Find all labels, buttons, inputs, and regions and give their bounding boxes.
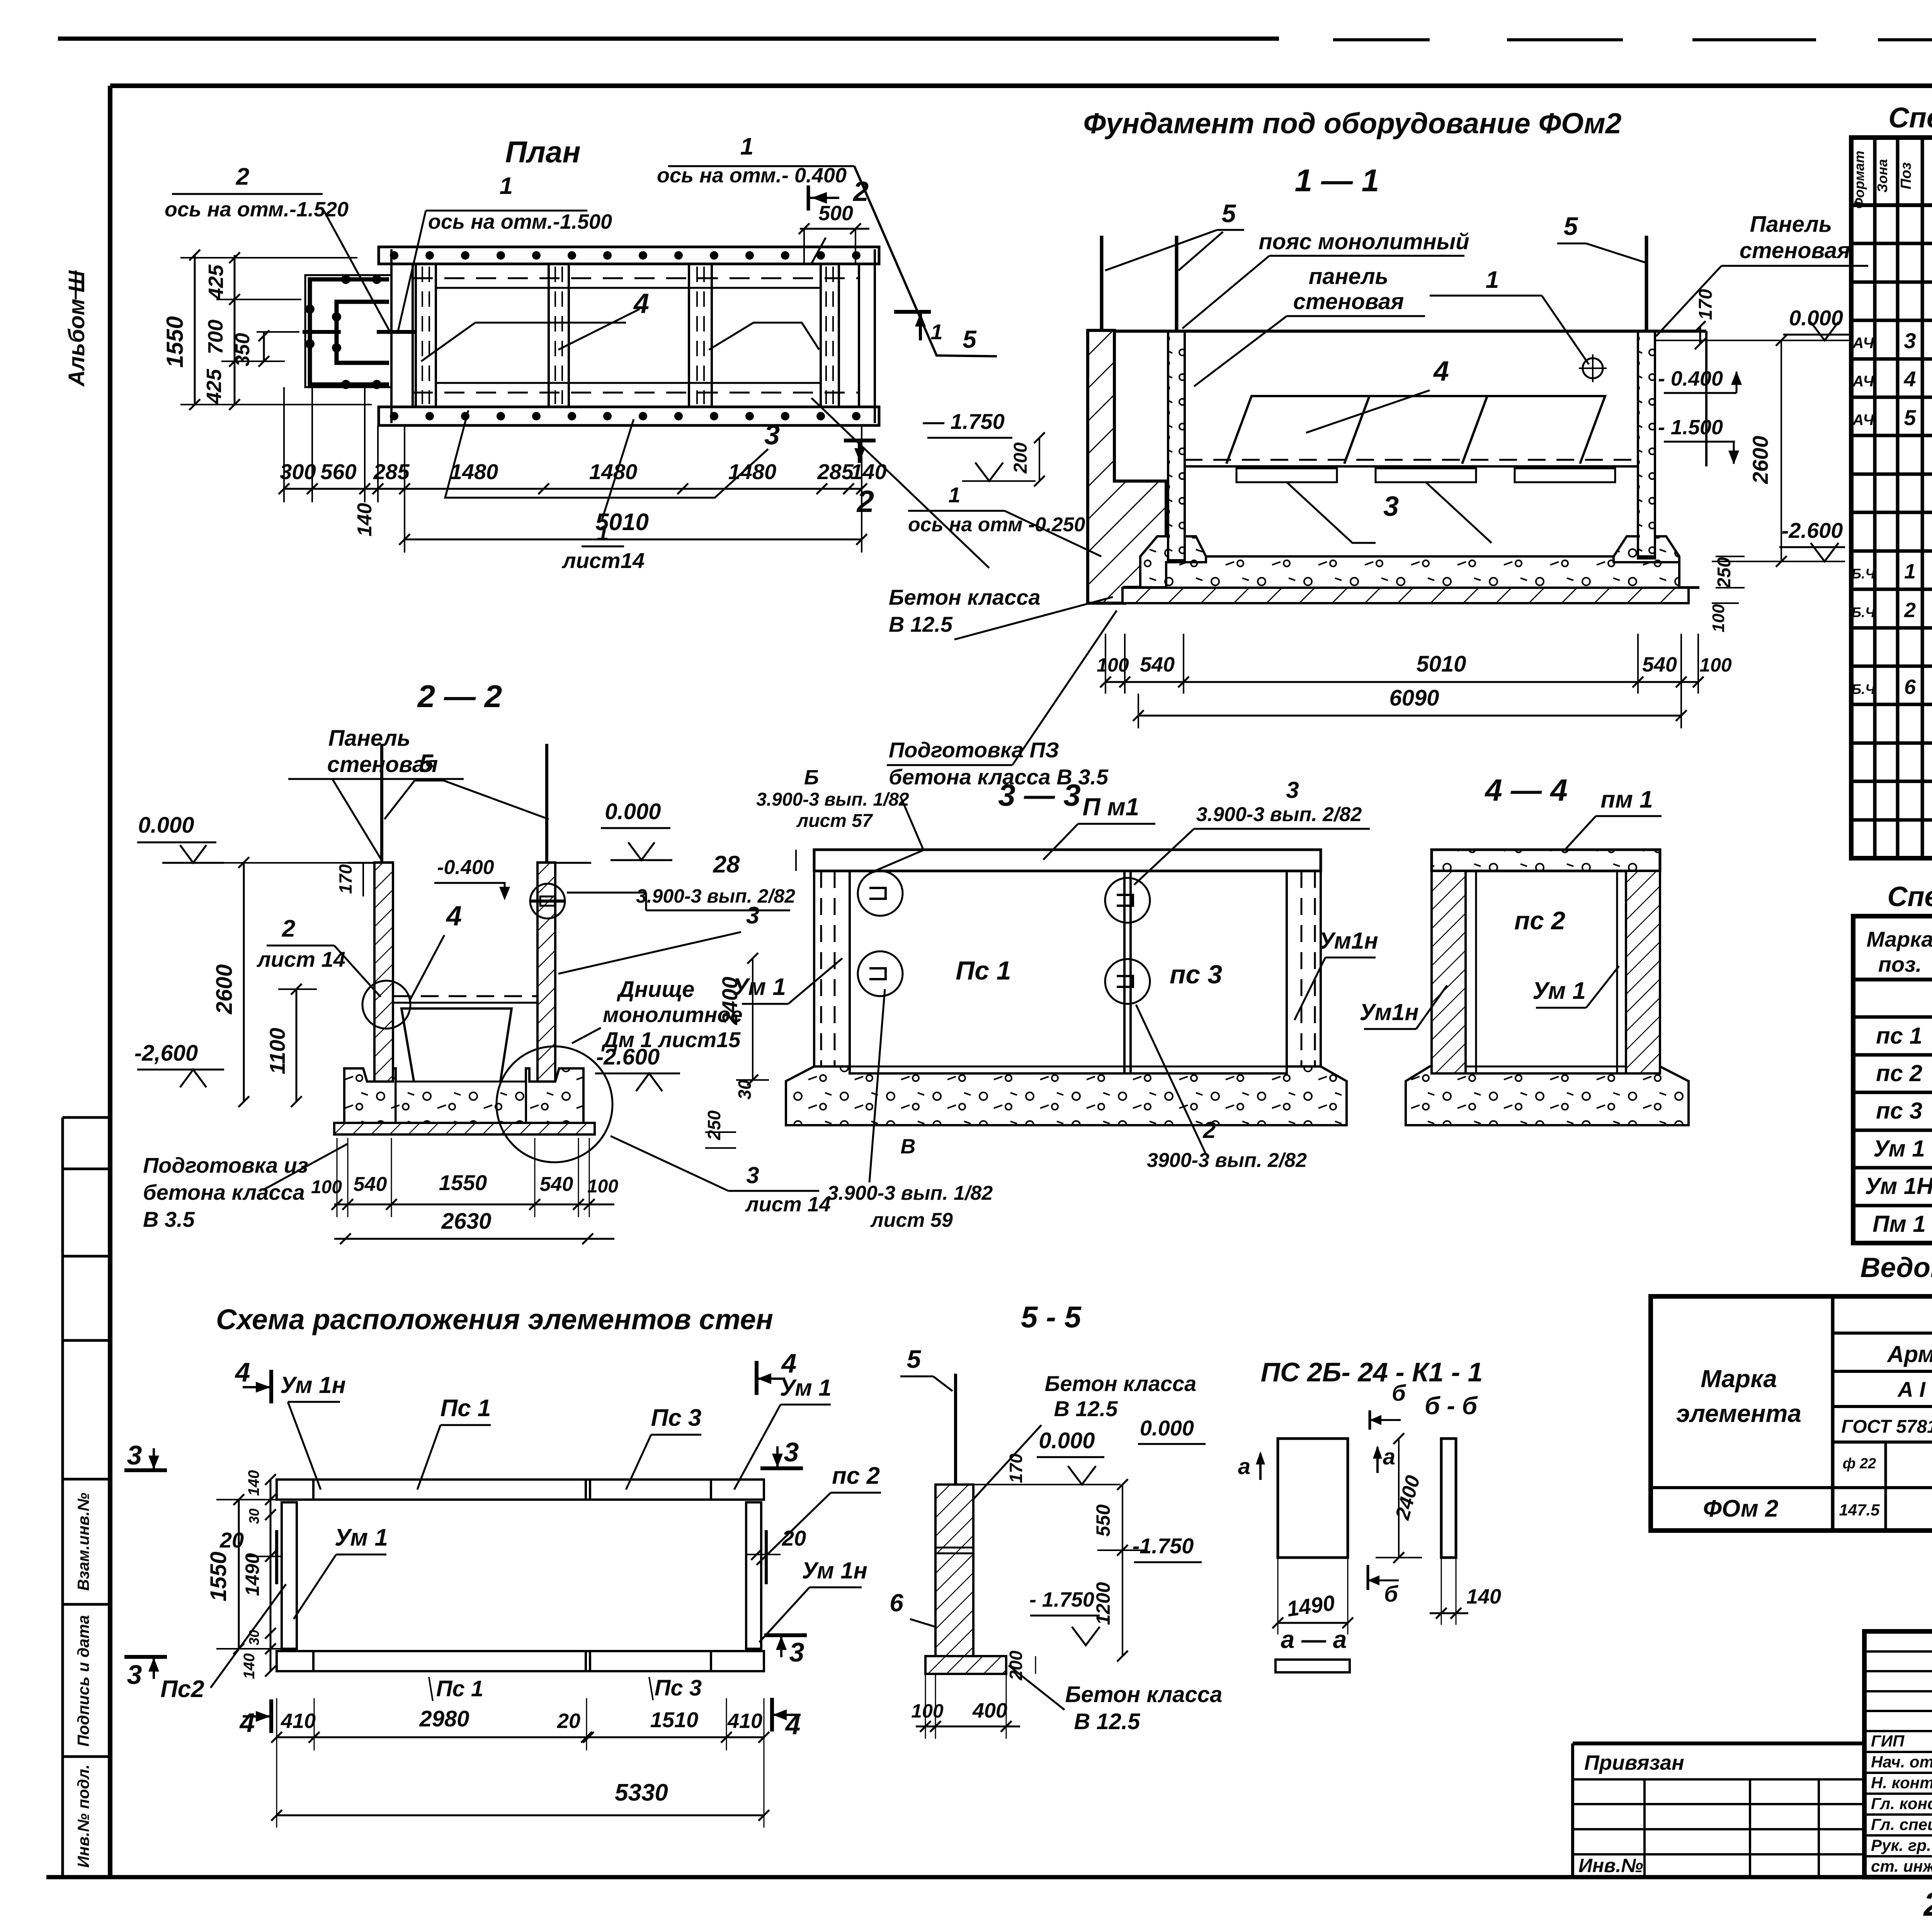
svg-text:Схема расположения элементов: Схема расположения элементов стен [216, 1303, 773, 1335]
svg-text:3.900-3 вып. 2/82: 3.900-3 вып. 2/82 [1196, 803, 1362, 826]
svg-text:1: 1 [930, 320, 942, 344]
svg-text:4: 4 [446, 901, 462, 932]
svg-text:лист 14: лист 14 [256, 947, 345, 971]
svg-text:Панель: Панель [328, 726, 411, 751]
svg-text:П м1: П м1 [1083, 793, 1139, 821]
svg-text:250: 250 [1714, 557, 1735, 588]
svg-text:140: 140 [241, 1653, 258, 1679]
svg-text:20: 20 [557, 1709, 580, 1733]
svg-text:3: 3 [1904, 328, 1916, 353]
svg-text:Пс2: Пс2 [160, 1676, 204, 1702]
svg-text:ось на отм.-1.520: ось на отм.-1.520 [165, 198, 349, 221]
svg-text:1550: 1550 [206, 1551, 231, 1601]
svg-text:550: 550 [1092, 1504, 1114, 1537]
svg-text:425: 425 [204, 264, 228, 300]
svg-text:б: б [1384, 1582, 1399, 1607]
svg-text:Н. контр.: Н. контр. [1871, 1774, 1932, 1792]
svg-text:Подготовка из: Подготовка из [143, 1153, 308, 1177]
svg-text:400: 400 [972, 1699, 1007, 1722]
svg-text:Марка: Марка [1867, 927, 1932, 951]
svg-text:ГОСТ 5781- 82 *: ГОСТ 5781- 82 * [1841, 1417, 1932, 1437]
svg-text:170: 170 [1006, 1453, 1026, 1483]
svg-text:3.900-3 вып. 1/82: 3.900-3 вып. 1/82 [827, 1182, 993, 1204]
svg-text:2: 2 [282, 915, 295, 942]
svg-text:лист 59: лист 59 [870, 1209, 953, 1231]
svg-text:3 — 3: 3 — 3 [998, 778, 1080, 812]
svg-text:- 0.400: - 0.400 [1658, 367, 1723, 390]
svg-text:3.900-3 вып. 1/82: 3.900-3 вып. 1/82 [756, 789, 909, 810]
svg-text:Пс 3: Пс 3 [651, 1405, 702, 1431]
svg-text:Пс 1: Пс 1 [440, 1395, 491, 1422]
svg-text:4: 4 [239, 1708, 255, 1738]
svg-text:Ум 1: Ум 1 [733, 974, 786, 1000]
svg-text:Рук. гр.: Рук. гр. [1871, 1836, 1931, 1854]
svg-text:560: 560 [320, 459, 356, 484]
svg-text:5330: 5330 [615, 1779, 668, 1806]
svg-text:1200: 1200 [1092, 1582, 1114, 1625]
svg-text:3.900-3 вып. 2/82: 3.900-3 вып. 2/82 [636, 885, 795, 907]
svg-text:Бетон класса: Бетон класса [889, 585, 1041, 609]
svg-text:4: 4 [1903, 367, 1916, 391]
svg-text:Ум1н: Ум1н [1359, 999, 1418, 1025]
svg-text:2600: 2600 [212, 964, 237, 1014]
svg-text:лист14: лист14 [561, 548, 645, 573]
svg-text:лист 57: лист 57 [796, 811, 873, 831]
svg-text:ПС 2Б- 24 - К1 - 1: ПС 2Б- 24 - К1 - 1 [1261, 1357, 1483, 1387]
svg-text:1: 1 [1486, 267, 1499, 293]
svg-text:В 12.5: В 12.5 [889, 612, 953, 636]
svg-text:30: 30 [246, 1509, 262, 1524]
svg-text:Б.Ч: Б.Ч [1852, 681, 1876, 697]
svg-text:410: 410 [281, 1709, 316, 1733]
svg-text:Б: Б [804, 766, 819, 789]
svg-text:100: 100 [587, 1176, 618, 1197]
svg-text:б: б [1392, 1381, 1406, 1406]
svg-text:1490: 1490 [241, 1553, 263, 1596]
svg-text:4: 4 [633, 288, 649, 319]
svg-text:6090: 6090 [1389, 685, 1439, 711]
svg-text:Инв.№: Инв.№ [1578, 1855, 1643, 1876]
svg-text:поз.: поз. [1878, 952, 1922, 976]
svg-text:Поз: Поз [1898, 162, 1914, 189]
svg-text:Зона: Зона [1874, 159, 1890, 193]
svg-text:пояс монолитный: пояс монолитный [1259, 229, 1469, 254]
svg-text:Гл. конс.: Гл. конс. [1871, 1794, 1932, 1813]
svg-text:3: 3 [1286, 777, 1299, 803]
svg-text:1480: 1480 [589, 459, 638, 484]
svg-text:пс 2: пс 2 [1876, 1060, 1922, 1086]
svg-text:1: 1 [1904, 560, 1916, 583]
svg-text:1550: 1550 [439, 1170, 487, 1195]
svg-text:ФОм 2: ФОм 2 [1703, 1495, 1779, 1522]
svg-text:ось на отм -0.250: ось на отм -0.250 [908, 514, 1085, 536]
svg-text:5010: 5010 [595, 509, 649, 536]
svg-text:425: 425 [202, 369, 226, 404]
svg-text:540: 540 [1140, 653, 1175, 676]
svg-text:Ум 1Н: Ум 1Н [1865, 1173, 1932, 1199]
svg-text:бетона класса: бетона класса [143, 1180, 305, 1204]
svg-text:300: 300 [280, 459, 316, 484]
svg-text:Бетон класса: Бетон класса [1065, 1682, 1223, 1707]
svg-text:1480: 1480 [728, 459, 777, 484]
svg-text:-0.400: -0.400 [437, 856, 494, 879]
svg-text:140: 140 [245, 1470, 262, 1496]
svg-text:2: 2 [1202, 1117, 1216, 1143]
svg-text:1: 1 [500, 173, 513, 199]
svg-text:4 — 4: 4 — 4 [1484, 773, 1567, 807]
svg-text:Б.Ч: Б.Ч [1852, 566, 1876, 582]
svg-text:3900-3 вып. 2/82: 3900-3 вып. 2/82 [1147, 1149, 1307, 1172]
svg-text:Бетон класса: Бетон класса [1045, 1371, 1197, 1396]
svg-text:410: 410 [727, 1709, 762, 1733]
svg-text:3: 3 [746, 1162, 759, 1188]
svg-text:2980: 2980 [419, 1706, 469, 1731]
svg-text:Ум 1: Ум 1 [335, 1524, 388, 1551]
svg-text:100: 100 [1709, 604, 1728, 633]
svg-text:1: 1 [948, 483, 960, 507]
svg-text:-1.750: -1.750 [1133, 1534, 1194, 1558]
svg-text:а: а [1383, 1444, 1395, 1469]
svg-text:пм 1: пм 1 [1600, 786, 1653, 813]
svg-text:Ум1н: Ум1н [1319, 928, 1378, 954]
svg-text:Ум 1: Ум 1 [1532, 978, 1586, 1004]
svg-text:пс 2: пс 2 [832, 1463, 880, 1489]
svg-text:3: 3 [1383, 491, 1399, 522]
svg-text:5: 5 [963, 325, 977, 353]
svg-text:Арматура класса: Арматура класса [1886, 1341, 1932, 1367]
svg-text:Гл. спец.: Гл. спец. [1871, 1815, 1932, 1833]
svg-text:0.000: 0.000 [138, 813, 194, 838]
svg-text:5: 5 [419, 749, 434, 777]
svg-text:140: 140 [1466, 1585, 1501, 1608]
svg-text:Нач. отд: Нач. отд [1871, 1753, 1932, 1771]
svg-text:20: 20 [782, 1526, 806, 1550]
svg-text:5: 5 [907, 1345, 922, 1373]
svg-text:АЧ: АЧ [1852, 373, 1874, 390]
svg-text:147.5: 147.5 [1839, 1501, 1880, 1519]
svg-text:4: 4 [781, 1348, 797, 1378]
svg-text:В 12.5: В 12.5 [1054, 1396, 1118, 1421]
svg-text:2 — 2: 2 — 2 [417, 679, 502, 714]
svg-text:-2.600: -2.600 [1782, 518, 1843, 543]
svg-text:30: 30 [735, 1080, 755, 1100]
svg-text:- 1.500: - 1.500 [1658, 416, 1723, 439]
svg-text:170: 170 [1696, 289, 1716, 320]
svg-text:Спецификация фундамента по: Спецификация фундамента под оборудование… [1888, 102, 1932, 134]
svg-text:5: 5 [1904, 405, 1916, 430]
svg-text:Спецификация к схеме располо: Спецификация к схеме расположения элемен… [1887, 881, 1932, 912]
svg-text:Ум 1н: Ум 1н [802, 1558, 867, 1583]
svg-text:Ведомость расхода стали на: Ведомость расхода стали на элемент, кг [1860, 1252, 1932, 1283]
svg-text:1550: 1550 [162, 316, 188, 367]
svg-text:элемента: элемента [1676, 1400, 1801, 1427]
svg-text:Пм 1: Пм 1 [1872, 1211, 1926, 1237]
svg-text:стеновая: стеновая [1293, 289, 1404, 314]
svg-text:1100: 1100 [265, 1028, 289, 1074]
svg-text:4: 4 [1433, 356, 1449, 387]
svg-text:3: 3 [789, 1637, 804, 1667]
svg-text:140: 140 [850, 459, 886, 484]
svg-text:а — а: а — а [1281, 1626, 1347, 1653]
svg-text:Привязан: Привязан [1584, 1751, 1684, 1774]
svg-text:Ум 1: Ум 1 [1873, 1136, 1925, 1162]
svg-text:2630: 2630 [441, 1209, 491, 1234]
svg-text:0.000: 0.000 [605, 799, 661, 824]
svg-text:1 — 1: 1 — 1 [1295, 163, 1379, 198]
svg-text:ось на отм.-1.500: ось на отм.-1.500 [428, 210, 612, 233]
svg-text:100: 100 [1699, 654, 1732, 676]
svg-text:Взам.инв.№: Взам.инв.№ [74, 1493, 92, 1591]
svg-text:Дм 1 лист15: Дм 1 лист15 [601, 1027, 741, 1052]
svg-text:б - б: б - б [1425, 1392, 1478, 1420]
svg-text:1510: 1510 [650, 1708, 699, 1732]
svg-text:В 12.5: В 12.5 [1074, 1709, 1141, 1734]
svg-text:пс 3: пс 3 [1170, 960, 1222, 989]
svg-text:Марка: Марка [1701, 1365, 1777, 1393]
svg-text:— 1.750: — 1.750 [922, 409, 1005, 434]
svg-text:3: 3 [764, 420, 780, 451]
svg-text:2: 2 [236, 163, 249, 190]
svg-text:А I: А I [1897, 1377, 1926, 1401]
svg-text:Инв.№ подл.: Инв.№ подл. [74, 1764, 92, 1867]
svg-text:Панель: Панель [1750, 212, 1832, 237]
svg-text:540: 540 [540, 1173, 573, 1196]
svg-text:Фундамент под оборудование: Фундамент под оборудование ФОм2 [1083, 107, 1622, 139]
svg-text:Подпись и дата: Подпись и дата [74, 1615, 92, 1747]
svg-text:0.000: 0.000 [1140, 1416, 1194, 1440]
svg-text:0.000: 0.000 [1039, 1428, 1095, 1453]
svg-text:Пс 3: Пс 3 [655, 1675, 702, 1701]
svg-text:В: В [901, 1135, 916, 1158]
svg-text:100: 100 [911, 1700, 944, 1722]
svg-text:5010: 5010 [1416, 651, 1466, 677]
svg-text:170: 170 [335, 864, 355, 894]
svg-text:22532-01: 22532-01 [1923, 1886, 1932, 1923]
svg-text:пс 2: пс 2 [1514, 906, 1565, 935]
svg-text:540: 540 [354, 1173, 387, 1196]
svg-text:-2,600: -2,600 [134, 1041, 198, 1066]
svg-text:285: 285 [817, 459, 854, 484]
svg-text:140: 140 [354, 503, 376, 537]
svg-text:3: 3 [784, 1437, 799, 1467]
svg-text:5: 5 [1222, 199, 1236, 228]
svg-text:4: 4 [235, 1357, 250, 1387]
svg-text:Формат: Формат [1851, 151, 1867, 209]
svg-text:ст. инж.: ст. инж. [1871, 1857, 1932, 1875]
svg-text:1480: 1480 [450, 459, 498, 484]
svg-text:Ум 1: Ум 1 [780, 1375, 832, 1401]
svg-text:3: 3 [746, 902, 759, 929]
svg-text:3: 3 [127, 1660, 142, 1690]
svg-text:2: 2 [1904, 599, 1916, 622]
svg-text:панель: панель [1309, 264, 1388, 289]
svg-text:Подготовка ПЗ: Подготовка ПЗ [889, 738, 1059, 762]
svg-text:5 - 5: 5 - 5 [1021, 1300, 1082, 1334]
svg-text:250: 250 [704, 1110, 724, 1140]
svg-text:6: 6 [889, 1589, 903, 1617]
svg-text:Б.Ч: Б.Ч [1852, 604, 1876, 620]
svg-text:200: 200 [1010, 442, 1031, 474]
svg-text:пс 1: пс 1 [1876, 1023, 1922, 1049]
svg-text:500: 500 [818, 202, 853, 225]
svg-text:ось на отм.- 0.400: ось на отм.- 0.400 [657, 164, 847, 187]
svg-text:1: 1 [740, 133, 753, 160]
svg-text:700: 700 [204, 320, 227, 354]
svg-text:3: 3 [127, 1440, 142, 1470]
svg-text:пс 3: пс 3 [1876, 1098, 1922, 1124]
svg-text:Ум 1н: Ум 1н [280, 1372, 346, 1398]
svg-text:В 3.5: В 3.5 [143, 1207, 195, 1231]
svg-text:а: а [1238, 1454, 1250, 1479]
svg-text:28: 28 [713, 851, 740, 878]
svg-text:лист 14: лист 14 [745, 1193, 831, 1216]
svg-text:6: 6 [1904, 675, 1916, 699]
svg-text:5: 5 [1564, 212, 1578, 240]
svg-text:30: 30 [246, 1630, 262, 1645]
svg-text:540: 540 [1642, 653, 1677, 676]
svg-text:АЧ: АЧ [1852, 412, 1874, 429]
svg-text:Пс 1: Пс 1 [956, 956, 1011, 985]
svg-text:Пс 1: Пс 1 [436, 1676, 483, 1701]
svg-text:стеновая: стеновая [1740, 238, 1850, 263]
svg-text:План: План [505, 135, 580, 169]
svg-text:ГИП: ГИП [1871, 1732, 1905, 1750]
svg-text:- 1.750: - 1.750 [1029, 1588, 1094, 1611]
svg-text:Днище: Днище [616, 977, 694, 1002]
svg-text:20: 20 [219, 1528, 244, 1552]
svg-text:ф 22: ф 22 [1843, 1456, 1876, 1472]
svg-text:2600: 2600 [1748, 436, 1772, 485]
svg-text:АЧ: АЧ [1852, 335, 1874, 352]
